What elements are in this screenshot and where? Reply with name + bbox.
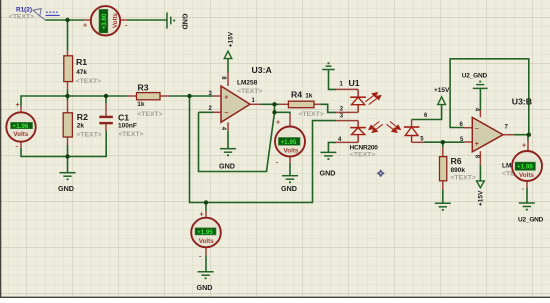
svg-text:1k: 1k bbox=[137, 101, 145, 108]
svg-text:<TEXT>: <TEXT> bbox=[299, 111, 324, 118]
svg-text:<TEXT>: <TEXT> bbox=[350, 151, 375, 158]
wire R2 bottom bbox=[67, 145, 69, 157]
wire U3:B pin8 to +15V down arrow bbox=[479, 165, 481, 181]
pin U3:A V- bbox=[227, 122, 229, 130]
svg-text:890k: 890k bbox=[451, 167, 466, 174]
voltmeter mid (+1.95) bbox=[275, 120, 305, 167]
svg-text:100nF: 100nF bbox=[118, 123, 137, 130]
wire bottom-left rail bbox=[21, 131, 106, 157]
pin R3 left bbox=[127, 95, 136, 97]
svg-text:R2: R2 bbox=[77, 112, 88, 122]
resistor R2 2k bbox=[63, 113, 72, 137]
svg-text:+1.98: +1.98 bbox=[517, 164, 533, 171]
photodiode PD1 of U1 bbox=[350, 121, 366, 143]
node R1/R2 junction bbox=[65, 94, 69, 98]
pin U3:A in+ bbox=[213, 95, 221, 97]
wire top voltmeter to GND bbox=[127, 19, 167, 21]
wire R3 right to op-amp pin3 bbox=[169, 95, 213, 97]
ground U2_GND inverted above U3:B bbox=[473, 82, 488, 89]
pin voltmeter left bottom bbox=[20, 142, 22, 149]
svg-text:<TEXT>: <TEXT> bbox=[77, 131, 102, 138]
svg-text:<TEXT>: <TEXT> bbox=[451, 175, 476, 182]
wire R4 to U1 pin2 bbox=[320, 104, 336, 112]
pin U3:B out bbox=[503, 134, 514, 136]
pin voltmeter mid bottom bbox=[289, 156, 291, 163]
pin R2 bottom bbox=[67, 137, 69, 145]
ground under U1 pin4 bbox=[320, 152, 336, 159]
ground under mid voltmeter bbox=[282, 176, 298, 183]
svg-text:GND: GND bbox=[197, 283, 213, 292]
pin U3:B 8 bbox=[479, 151, 481, 165]
LED emit arrows bbox=[365, 93, 381, 105]
PD1 receive arrows bbox=[369, 122, 383, 133]
svg-text:GND: GND bbox=[219, 162, 235, 171]
node R2 gnd junction bbox=[65, 154, 69, 158]
wire bottom voltmeter tap bbox=[205, 203, 207, 212]
node feedback junction bbox=[272, 110, 276, 114]
node C1 top junction bbox=[104, 94, 108, 98]
pin voltmeter right bottom bbox=[526, 181, 528, 188]
wire U3:B pin4 to U2_GND bbox=[479, 88, 481, 110]
node top junction bbox=[65, 18, 69, 22]
op-amp U3:A LM258 bbox=[221, 86, 250, 122]
voltmeter left (+1.96) bbox=[6, 102, 35, 151]
svg-text:−: − bbox=[224, 110, 228, 117]
pin C1 bottom bbox=[105, 124, 107, 131]
wire U3:A pin8 to +15V bbox=[227, 59, 229, 73]
resistor R1 47k bbox=[64, 56, 73, 82]
svg-text:+: + bbox=[475, 141, 479, 148]
svg-text:GND: GND bbox=[58, 184, 74, 193]
wire PD2 pin6 to +15V arrow bbox=[412, 105, 442, 120]
pin U3:B 4 bbox=[479, 110, 481, 117]
pin R6 bottom bbox=[442, 181, 444, 190]
power +15V arrow above U3:A bbox=[224, 51, 232, 58]
voltmeter bottom (+1.95) bbox=[191, 211, 221, 260]
svg-text:2k: 2k bbox=[77, 123, 85, 130]
pin R1 top bbox=[67, 51, 69, 56]
wire R2 gnd stem bbox=[67, 157, 69, 173]
wire feedback loop U3:A bbox=[199, 105, 275, 172]
wire junction down to bottom rail bbox=[190, 96, 337, 203]
pin R4 left bbox=[279, 103, 288, 105]
resistor R4 1k bbox=[288, 101, 314, 108]
wire mid voltmeter gnd stem bbox=[289, 163, 291, 176]
wire voltmeter mid tap bbox=[275, 112, 291, 114]
pin voltmeter bottom top bbox=[205, 211, 207, 218]
pin U3:B in- bbox=[464, 127, 472, 129]
pin U1 pd 3 bbox=[336, 120, 358, 122]
svg-text:U2_GND: U2_GND bbox=[462, 73, 488, 80]
svg-text:+: + bbox=[224, 94, 228, 101]
svg-text:U3:A: U3:A bbox=[252, 65, 273, 75]
svg-text:+: + bbox=[83, 22, 87, 29]
svg-text:U2_GND: U2_GND bbox=[518, 216, 544, 223]
svg-text:+: + bbox=[276, 120, 280, 127]
wire output to R4 bbox=[261, 103, 280, 105]
wire R1 bottom to junction bbox=[67, 89, 69, 100]
pin voltmeter bottom lower bbox=[205, 247, 207, 255]
svg-text:<TEXT>: <TEXT> bbox=[137, 111, 162, 118]
wire U3:B pin7 to junction bbox=[514, 134, 529, 136]
wire U1 pin1 gnd bbox=[329, 70, 337, 90]
svg-text:GND: GND bbox=[181, 14, 190, 30]
node U3:B out junction bbox=[527, 133, 531, 137]
svg-text:+3.80: +3.80 bbox=[101, 13, 108, 29]
pin R1 bottom bbox=[67, 82, 69, 90]
svg-text:Volts: Volts bbox=[112, 13, 119, 28]
pin U3:A out bbox=[250, 103, 261, 105]
capacitor C1 100nF bbox=[99, 117, 113, 123]
wire bottom voltmeter gnd stem bbox=[205, 256, 207, 272]
ground rotated (top, right of voltmeter) bbox=[167, 12, 174, 28]
wire R6 top stub bbox=[442, 142, 444, 147]
terminal triangle marker bbox=[33, 9, 41, 16]
pin U3:A V+ bbox=[227, 73, 229, 87]
svg-text:+1.95: +1.95 bbox=[197, 229, 213, 236]
power +15V arrow right of PD2 bbox=[438, 97, 446, 105]
svg-text:U1: U1 bbox=[349, 78, 360, 88]
wire right voltmeter gnd stem bbox=[526, 188, 528, 203]
ground under R6 (no label) bbox=[435, 203, 451, 210]
node R6 junction bbox=[441, 140, 445, 144]
pin U3:B in+ bbox=[464, 141, 472, 143]
wire C1 top stub bbox=[105, 96, 107, 103]
svg-text:Volts: Volts bbox=[199, 238, 214, 245]
pin U1 pd 4 bbox=[336, 141, 358, 143]
svg-text:+1.96: +1.96 bbox=[12, 123, 28, 130]
svg-text:C1: C1 bbox=[118, 112, 129, 122]
pin PD2 5 bbox=[412, 141, 424, 143]
pin U1 cathode 2 bbox=[336, 111, 358, 113]
left screen edge bbox=[0, 0, 1, 298]
node output junction bbox=[272, 102, 276, 106]
svg-text:+: + bbox=[522, 143, 526, 150]
svg-text:<TEXT>: <TEXT> bbox=[237, 88, 262, 95]
svg-text:+1.95: +1.95 bbox=[281, 139, 297, 146]
photodiode PD2 bbox=[404, 127, 420, 142]
ground under R2 bbox=[60, 173, 76, 180]
pin voltmeter top left bbox=[84, 19, 91, 21]
pin C1 top bbox=[105, 103, 107, 115]
wire R6 bottom to gnd bbox=[442, 190, 444, 203]
op-amp U3:B bbox=[472, 117, 503, 151]
wire mid rail y=96 left part bbox=[21, 96, 127, 106]
svg-text:R4: R4 bbox=[291, 90, 302, 100]
svg-text:GND: GND bbox=[281, 184, 297, 193]
svg-text:R6: R6 bbox=[451, 156, 462, 166]
PD2 receive arrows bbox=[387, 122, 401, 133]
svg-text:1k: 1k bbox=[305, 92, 313, 99]
LED of U1 bbox=[350, 89, 366, 112]
ground U2_GND under right voltmeter bbox=[519, 203, 535, 210]
origin crosshair marker bbox=[377, 169, 385, 177]
wire U3:B pin6 feedback loop bbox=[450, 59, 529, 135]
svg-text:Volts: Volts bbox=[519, 172, 534, 179]
bottom screen edge bbox=[0, 297, 550, 298]
resistor R6 890k bbox=[440, 157, 447, 181]
svg-text:47k: 47k bbox=[76, 69, 87, 76]
node bottom voltmeter junction bbox=[204, 200, 208, 204]
pin R3 right bbox=[160, 95, 169, 97]
pin U3:A in- bbox=[213, 111, 221, 113]
wire U1 pin4 gnd bbox=[328, 142, 336, 152]
wire top net to voltmeter bbox=[46, 19, 84, 21]
svg-text:Volts: Volts bbox=[13, 131, 28, 138]
svg-text:+: + bbox=[16, 102, 20, 109]
ground under U3:A bbox=[220, 149, 236, 156]
svg-text:R3: R3 bbox=[138, 82, 149, 92]
wire op-amp pin2 stub bbox=[199, 111, 214, 113]
svg-text:−: − bbox=[475, 126, 479, 133]
pin voltmeter top right bbox=[120, 19, 127, 21]
svg-text:U3:B: U3:B bbox=[512, 97, 532, 107]
svg-text:+15V: +15V bbox=[227, 31, 234, 47]
svg-text:<TEXT>: <TEXT> bbox=[76, 78, 101, 85]
svg-text:LM258: LM258 bbox=[237, 79, 258, 86]
pin R2 top bbox=[67, 100, 69, 113]
svg-text:R1: R1 bbox=[76, 57, 87, 67]
pin R6 top bbox=[442, 147, 444, 156]
svg-text:<TEXT>: <TEXT> bbox=[118, 131, 143, 138]
voltmeter top (+3.80) rotated bbox=[83, 6, 128, 35]
pin R4 right bbox=[314, 103, 320, 105]
svg-text:GND: GND bbox=[320, 168, 336, 177]
svg-text:+15V: +15V bbox=[434, 87, 450, 94]
ground inverted above U1 pin1 bbox=[322, 63, 334, 69]
svg-text:Volts: Volts bbox=[284, 148, 299, 155]
pin voltmeter right top bbox=[527, 140, 529, 151]
wire U3:A pin4 gnd stem bbox=[227, 131, 229, 149]
voltmeter right (+1.98) bbox=[512, 143, 542, 194]
svg-text:+15V: +15V bbox=[477, 190, 484, 206]
wire junction to right voltmeter bbox=[527, 135, 529, 140]
pin voltmeter mid top bbox=[289, 114, 291, 127]
node R3/pin3 junction bbox=[187, 94, 191, 98]
pin PD2 6 vertical bbox=[411, 120, 413, 128]
pin voltmeter left top bbox=[20, 106, 22, 113]
wire PD2 pin5 to R6 junction to U3:B pin5 bbox=[424, 141, 464, 143]
pin U1 anode 1 bbox=[336, 88, 358, 90]
terminal dashes bbox=[46, 11, 59, 13]
wire junction to R1 top bbox=[67, 20, 69, 51]
svg-text:<TEXT>: <TEXT> bbox=[9, 13, 34, 20]
svg-text:+: + bbox=[200, 211, 204, 218]
ground under bottom voltmeter bbox=[198, 272, 214, 279]
power +15V down arrow under U3:B pin8 bbox=[477, 181, 485, 188]
resistor R3 1k bbox=[137, 93, 161, 100]
